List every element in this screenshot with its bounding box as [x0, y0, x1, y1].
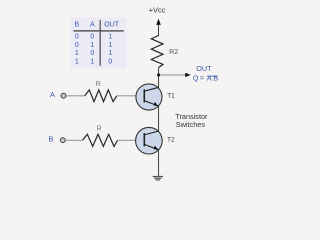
svg-text:R: R: [96, 81, 101, 88]
resistor R2: [151, 36, 178, 68]
transistor T1: [136, 84, 175, 110]
transistor T2: [136, 127, 175, 154]
svg-text:1: 1: [75, 59, 79, 66]
wire T1 collector-emitter rail: [158, 89, 160, 132]
svg-text:1: 1: [75, 50, 79, 57]
wire resistor to T2 base: [118, 139, 145, 141]
svg-text:0: 0: [75, 42, 79, 49]
input terminal A: [50, 90, 66, 99]
power +Vcc: [149, 6, 166, 36]
truth table: [71, 17, 127, 68]
svg-text:B: B: [74, 22, 79, 29]
label transistor switches: [175, 112, 208, 129]
svg-text:0: 0: [75, 33, 79, 40]
svg-text:0: 0: [90, 50, 94, 57]
svg-text:T2: T2: [167, 137, 175, 144]
svg-text:OUT: OUT: [104, 22, 120, 29]
wire resistor to T1 base: [117, 95, 145, 97]
svg-text:B: B: [48, 135, 53, 144]
node junction: [157, 74, 160, 77]
svg-text:0: 0: [90, 33, 94, 40]
svg-text:Switches: Switches: [176, 120, 206, 129]
svg-text:1: 1: [108, 42, 112, 49]
svg-text:Q: Q: [193, 76, 199, 83]
svg-text:1: 1: [90, 59, 94, 66]
wire A to resistor: [66, 95, 85, 97]
wire T2 emitter to ground: [158, 150, 160, 176]
ground: [153, 177, 163, 180]
label Q = A.B with overline: [193, 76, 219, 83]
wire R2 to node: [158, 68, 160, 89]
svg-text:R: R: [97, 125, 102, 132]
output wire with arrow: [160, 73, 191, 77]
svg-text:A: A: [90, 22, 95, 29]
svg-text:T1: T1: [167, 92, 175, 99]
svg-text:1: 1: [108, 33, 112, 40]
svg-text:0: 0: [108, 59, 112, 66]
svg-text:=: =: [200, 76, 204, 83]
svg-text:R2: R2: [169, 49, 178, 56]
svg-text:1: 1: [90, 42, 94, 49]
resistor R (input B): [83, 125, 118, 146]
svg-text:A: A: [50, 90, 55, 99]
svg-text:+Vcc: +Vcc: [149, 6, 166, 15]
wire B to resistor: [65, 139, 82, 141]
resistor R (input A): [85, 81, 117, 102]
svg-text:OUT: OUT: [196, 64, 212, 73]
input terminal B: [48, 135, 65, 144]
svg-text:1: 1: [108, 50, 112, 57]
svg-text:A.B: A.B: [207, 76, 219, 83]
